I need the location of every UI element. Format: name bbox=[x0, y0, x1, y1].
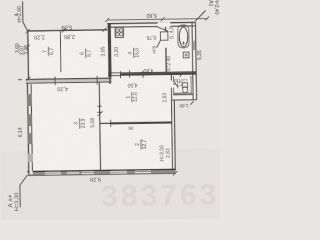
room 2 label bbox=[135, 139, 148, 150]
rooms 1|2 wall bbox=[100, 122, 111, 124]
tick left veranda wall bbox=[26, 45, 30, 49]
room 4 label bbox=[128, 48, 141, 59]
stove bbox=[115, 27, 123, 37]
leader top-right bbox=[195, 11, 206, 22]
wc zone left wall bbox=[170, 75, 172, 81]
ticks on wall bbox=[119, 71, 121, 78]
wing bottom wall bbox=[108, 72, 196, 73]
leader top-left bbox=[23, 1, 28, 31]
wc left wall door gap bbox=[171, 81, 173, 88]
bathtub bbox=[178, 25, 189, 48]
door panel bbox=[160, 32, 168, 40]
door gap top wall bbox=[158, 22, 171, 27]
door leaf entrance bbox=[157, 27, 169, 32]
room 6 label bbox=[80, 48, 93, 58]
wing top wall bbox=[107, 22, 195, 23]
building interior fill bbox=[27, 24, 197, 173]
left wall windows bbox=[27, 94, 33, 162]
boiler bbox=[183, 52, 189, 58]
paper background bbox=[0, 0, 220, 220]
veranda top wall bbox=[28, 30, 107, 31]
toilet bbox=[182, 83, 187, 87]
veranda left wall bbox=[27, 31, 30, 82]
room3 right wall bbox=[99, 82, 100, 170]
tick bottom right corner bbox=[173, 171, 178, 176]
tick wc top bbox=[179, 73, 183, 77]
partition room7|room6 bbox=[59, 31, 62, 72]
wc door leaf bbox=[173, 80, 178, 87]
room 7 label bbox=[42, 47, 55, 57]
bathroom left wall bbox=[165, 26, 167, 31]
dimension line top right bbox=[107, 19, 207, 20]
step bottom of wc zone bbox=[173, 93, 192, 95]
main top wall bbox=[26, 78, 112, 82]
bottom wall bbox=[28, 169, 175, 176]
ticks top veranda wall bbox=[26, 29, 30, 33]
rooms right wall bbox=[171, 100, 172, 170]
left wall bbox=[27, 80, 33, 174]
room 5 label bbox=[172, 79, 183, 88]
leader bottom-left bbox=[20, 175, 28, 207]
room 3 label bbox=[74, 118, 87, 129]
wing right wall bbox=[192, 22, 193, 99]
window in right wall bbox=[192, 41, 195, 51]
wing left wall bbox=[108, 24, 112, 77]
room 1 label bbox=[126, 92, 139, 103]
bottom windows bbox=[45, 170, 151, 174]
